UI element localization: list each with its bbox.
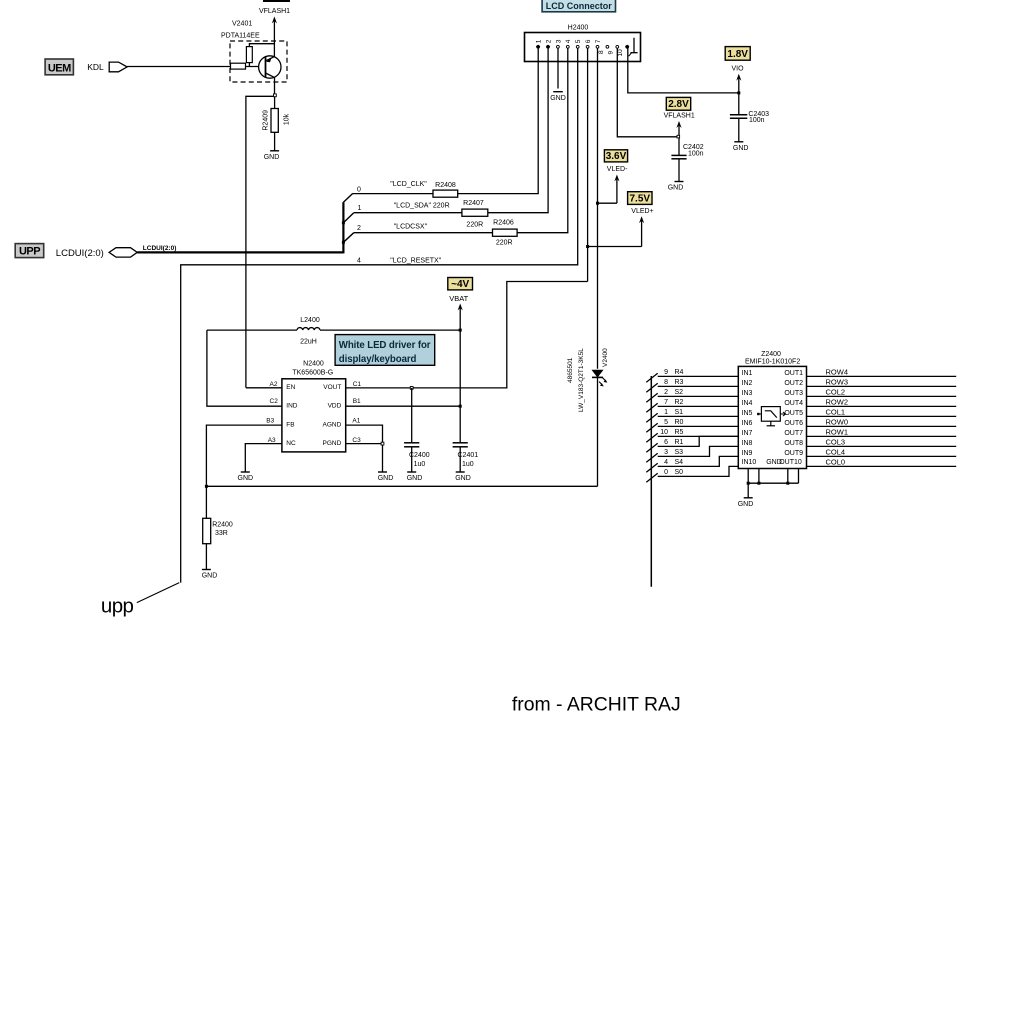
wire R1 jog to IN7 <box>658 436 739 446</box>
svg-text:VDD: VDD <box>328 402 342 409</box>
block reference UPP <box>15 244 44 258</box>
svg-text:OUT6: OUT6 <box>784 420 803 427</box>
voltage label 7.5V <box>628 192 652 205</box>
svg-text:3: 3 <box>555 39 562 43</box>
signal pointer KDL <box>109 62 127 72</box>
svg-text:FB: FB <box>286 421 294 428</box>
wire resistor top to emitter rail <box>249 44 274 47</box>
capacitor C2403 <box>730 114 747 116</box>
svg-text:4: 4 <box>357 258 361 265</box>
node VOUT-C2400 <box>410 387 413 390</box>
svg-text:B1: B1 <box>353 398 361 405</box>
svg-text:10: 10 <box>660 429 668 436</box>
resistor R2409 <box>271 109 278 133</box>
svg-text:PDTA114EE: PDTA114EE <box>221 33 260 40</box>
node VDD-VBAT <box>459 405 462 408</box>
ground (C2403) <box>734 141 743 143</box>
svg-text:White LED driver for: White LED driver for <box>339 340 431 351</box>
wire FB to rail <box>206 425 282 486</box>
svg-text:LW_V183-Q2T1-3K5L: LW_V183-Q2T1-3K5L <box>578 348 585 412</box>
wire node to EN vertical <box>246 96 274 388</box>
svg-text:R2400: R2400 <box>212 522 233 529</box>
svg-text:10k: 10k <box>283 113 290 125</box>
svg-text:NC: NC <box>286 440 296 447</box>
svg-text:R4: R4 <box>675 369 684 376</box>
svg-text:C1: C1 <box>353 381 362 388</box>
svg-text:OUT4: OUT4 <box>784 400 803 407</box>
svg-text:ROW1: ROW1 <box>826 428 849 437</box>
ground (C2402) <box>675 181 684 183</box>
title label LCD Connector <box>542 0 615 12</box>
svg-text:5: 5 <box>664 419 668 426</box>
svg-text:VFLASH1: VFLASH1 <box>664 112 695 119</box>
svg-text:9: 9 <box>607 51 614 55</box>
svg-text:OUT8: OUT8 <box>784 440 803 447</box>
wire LED to rail <box>597 378 599 486</box>
svg-text:OUT10: OUT10 <box>779 459 802 466</box>
voltage label ~4V <box>448 278 473 290</box>
svg-text:IN7: IN7 <box>742 430 753 437</box>
svg-text:IN2: IN2 <box>742 380 753 387</box>
svg-text:ROW3: ROW3 <box>826 378 849 387</box>
wire LCD_RESETX from upp to pin 5 <box>181 48 578 583</box>
wire KDL to V2401 <box>127 66 230 68</box>
built-in resistor (base-emitter) of V2401 <box>246 47 252 63</box>
wire bus to R2408 <box>353 193 433 195</box>
off-page reference upp <box>137 583 180 603</box>
svg-text:220R: 220R <box>466 221 483 228</box>
svg-text:R2407: R2407 <box>463 200 484 207</box>
svg-text:V2401: V2401 <box>232 21 252 28</box>
ground (Z2400) <box>744 497 753 499</box>
svg-text:ROW2: ROW2 <box>826 398 849 407</box>
svg-text:A2: A2 <box>270 381 278 388</box>
svg-text:"LCD_CLK": "LCD_CLK" <box>390 181 427 188</box>
wire ground rail (FB/R2400/LED return) <box>205 485 597 487</box>
svg-text:2: 2 <box>357 225 361 232</box>
svg-text:220R: 220R <box>496 240 513 247</box>
connector H2400 body <box>525 33 641 62</box>
svg-text:5: 5 <box>575 39 582 43</box>
svg-text:ROW0: ROW0 <box>826 418 849 427</box>
svg-text:8: 8 <box>598 50 605 54</box>
resistor R2400 <box>203 518 211 543</box>
svg-text:S0: S0 <box>675 469 684 476</box>
voltage label 1.8V <box>725 47 750 61</box>
svg-text:GND: GND <box>407 475 423 482</box>
wire bus to R2406 <box>354 232 493 234</box>
capacitor C2400 wire <box>411 388 413 443</box>
ground (C2400) <box>407 471 416 473</box>
svg-text:IND: IND <box>286 402 298 409</box>
svg-text:C2: C2 <box>270 398 279 405</box>
bus tap 0 <box>343 193 352 202</box>
resistor R2406 <box>493 229 518 236</box>
svg-text:R2: R2 <box>675 399 684 406</box>
wire pin 3 to ground <box>557 48 559 88</box>
svg-text:LCD Connector: LCD Connector <box>546 1 612 11</box>
ground (R2400) <box>202 569 211 571</box>
svg-text:COL4: COL4 <box>826 448 846 457</box>
wire NC to ground <box>245 444 282 472</box>
bus tap 0 S0 <box>646 473 657 482</box>
svg-text:V2400: V2400 <box>602 348 609 367</box>
wire VLED+ to pin6 line <box>588 246 642 248</box>
keypad bus riser <box>650 376 652 587</box>
wire R2407 to pin 2 <box>488 48 548 213</box>
svg-text:VLED-: VLED- <box>607 166 628 173</box>
svg-text:H2400: H2400 <box>568 24 589 31</box>
svg-text:GND: GND <box>238 475 254 482</box>
svg-text:COL1: COL1 <box>826 408 846 417</box>
svg-text:N2400: N2400 <box>303 361 324 368</box>
wire AGND down <box>346 425 383 472</box>
svg-text:R3: R3 <box>675 379 684 386</box>
connector pins 1-10 <box>537 45 540 48</box>
svg-text:6: 6 <box>664 439 668 446</box>
filter element inside Z2400 <box>761 407 780 422</box>
svg-text:KDL: KDL <box>87 62 104 72</box>
wire EN stub <box>246 387 282 389</box>
svg-text:4865501: 4865501 <box>567 357 574 383</box>
svg-text:S1: S1 <box>675 409 684 416</box>
ground (R2409) <box>270 150 279 152</box>
svg-text:LCDUI(2:0): LCDUI(2:0) <box>56 248 104 259</box>
node VLED- <box>596 202 599 205</box>
transistor V2401 body <box>259 56 281 78</box>
svg-text:9: 9 <box>664 369 668 376</box>
voltage label 3.6V <box>604 150 627 162</box>
svg-text:GND: GND <box>378 475 394 482</box>
svg-text:R2406: R2406 <box>493 220 514 227</box>
svg-text:OUT2: OUT2 <box>784 380 803 387</box>
bus riser <box>342 202 344 253</box>
bus tap 6 R1 <box>646 443 657 452</box>
svg-text:7: 7 <box>595 39 602 43</box>
svg-text:3.6V: 3.6V <box>606 151 627 162</box>
svg-text:VBAT: VBAT <box>449 294 468 303</box>
node (transistor output) <box>274 94 277 97</box>
transistor V2401 PDTA114EE (dashed outline) <box>230 41 287 82</box>
node Z2400 gnd a <box>747 482 750 485</box>
wire node to R2409 <box>274 97 276 109</box>
wire C2402 to ground <box>678 159 680 182</box>
node VBAT-inductor <box>459 329 462 332</box>
resistor R2407 <box>462 209 488 216</box>
svg-text:TK65600B-G: TK65600B-G <box>292 370 333 377</box>
bus tap 1 <box>342 221 345 224</box>
svg-text:LCDUI(2:0): LCDUI(2:0) <box>143 245 177 252</box>
svg-text:R2408: R2408 <box>435 182 456 189</box>
svg-text:ROW4: ROW4 <box>826 368 849 377</box>
svg-text:OUT7: OUT7 <box>784 430 803 437</box>
svg-text:R5: R5 <box>675 429 684 436</box>
IC N2400 body <box>282 379 346 452</box>
svg-text:IN3: IN3 <box>742 390 753 397</box>
svg-text:UPP: UPP <box>19 246 40 258</box>
svg-text:8: 8 <box>664 379 668 386</box>
svg-text:AGND: AGND <box>323 421 342 428</box>
IC Z2400 body <box>738 366 806 468</box>
wire R2408 to pin 1 <box>458 48 539 194</box>
svg-text:33R: 33R <box>215 530 228 537</box>
wire R2409 to ground <box>274 132 276 151</box>
bus tap 2 S2 <box>646 393 657 402</box>
ground (PGND) <box>378 471 387 473</box>
wire rail to R2400 <box>205 486 207 518</box>
svg-text:1.8V: 1.8V <box>727 49 748 60</box>
svg-text:S3: S3 <box>675 449 684 456</box>
svg-text:R0: R0 <box>675 419 684 426</box>
svg-text:VOUT: VOUT <box>323 384 341 391</box>
svg-text:4: 4 <box>565 39 572 43</box>
svg-text:2: 2 <box>664 389 668 396</box>
svg-text:COL3: COL3 <box>826 438 846 447</box>
svg-text:VLED+: VLED+ <box>631 208 653 215</box>
svg-text:display/keyboard: display/keyboard <box>339 354 417 365</box>
wire bus to R2407 <box>354 212 462 214</box>
svg-text:IN5: IN5 <box>742 410 753 417</box>
wire inductor to VBAT node <box>320 329 460 331</box>
svg-text:COL2: COL2 <box>826 388 846 397</box>
capacitor C2403 wire <box>738 93 740 115</box>
svg-text:7: 7 <box>664 399 668 406</box>
LED V2400 <box>592 370 602 377</box>
svg-text:OUT3: OUT3 <box>784 390 803 397</box>
svg-text:IN6: IN6 <box>742 420 753 427</box>
bus tap 3 S3 <box>646 453 657 462</box>
inductor L2400 <box>297 328 320 331</box>
svg-text:GND: GND <box>550 95 566 102</box>
svg-text:0: 0 <box>357 186 361 193</box>
svg-text:100n: 100n <box>688 150 704 157</box>
svg-text:Z2400: Z2400 <box>761 351 781 358</box>
node Z2400 gnd c <box>786 482 789 485</box>
svg-text:"LCDCSX": "LCDCSX" <box>394 224 428 231</box>
wire VOUT from N2400 to pin 6 <box>346 282 588 388</box>
bus tap 7 R2 <box>646 403 657 412</box>
svg-text:COL0: COL0 <box>826 458 846 467</box>
svg-text:VFLASH1: VFLASH1 <box>259 8 290 15</box>
wire C2403 to ground <box>738 118 740 141</box>
bus tap 10 R5 <box>646 433 657 442</box>
svg-text:~4V: ~4V <box>451 279 469 290</box>
node Z2400 gnd b <box>757 482 760 485</box>
ground (connector pin 3) <box>553 91 563 93</box>
wire R2406 to pin 4 <box>517 48 568 233</box>
svg-text:100n: 100n <box>749 117 765 124</box>
svg-text:VIO: VIO <box>731 65 744 72</box>
wire VBAT down to C2401 <box>459 330 461 443</box>
svg-text:R2409: R2409 <box>262 110 269 131</box>
wire pin 7 down to LED <box>597 48 599 369</box>
wire Z2400 ground stubs <box>747 469 749 484</box>
svg-text:GND: GND <box>202 573 218 580</box>
svg-text:1: 1 <box>358 205 362 212</box>
built-in series base resistor of V2401 <box>231 63 246 69</box>
wire collector down to node <box>274 77 276 94</box>
wire S3 jog to IN8 <box>658 446 739 456</box>
svg-text:1: 1 <box>536 39 543 43</box>
bus tap 9 R4 <box>646 373 657 382</box>
wire base resistor to transistor base <box>246 66 266 68</box>
connector internal ground symbol <box>633 38 635 53</box>
wire pin 9 to VFLASH1 node <box>617 48 677 137</box>
wire PGND join <box>346 443 383 445</box>
svg-text:OUT9: OUT9 <box>784 450 803 457</box>
bus tap 4 S4 <box>646 463 657 472</box>
svg-text:R1: R1 <box>675 439 684 446</box>
wire pin 10 to VIO node <box>628 48 739 93</box>
wire VDD to VBAT <box>346 405 461 407</box>
bus pointer LCDUI(2:0) <box>109 248 137 257</box>
svg-text:2.8V: 2.8V <box>668 99 689 110</box>
svg-text:1u0: 1u0 <box>462 461 474 468</box>
wire S0 jog to IN10 <box>658 466 739 476</box>
net VFLASH1 (top, cut-off bar) <box>263 0 290 2</box>
svg-text:"LCD_SDA" 220R: "LCD_SDA" 220R <box>394 202 450 209</box>
bus tap 1 S1 <box>646 413 657 422</box>
svg-text:7.5V: 7.5V <box>630 193 651 204</box>
svg-text:L2400: L2400 <box>300 317 320 324</box>
node rail-R2400 <box>205 485 208 488</box>
node PGND-AGND <box>381 442 384 445</box>
ground (NC) <box>241 471 250 473</box>
svg-text:GND: GND <box>455 475 471 482</box>
svg-text:2: 2 <box>545 39 552 43</box>
svg-text:3: 3 <box>664 449 668 456</box>
svg-text:S2: S2 <box>675 389 684 396</box>
wire R2400 to ground <box>205 544 207 570</box>
svg-text:"LCD_RESETX": "LCD_RESETX" <box>390 257 441 264</box>
svg-text:B3: B3 <box>266 418 274 425</box>
svg-text:GND: GND <box>668 185 684 192</box>
svg-text:1u0: 1u0 <box>414 461 426 468</box>
wire resistor bottom to base <box>248 63 250 67</box>
svg-text:IN1: IN1 <box>742 370 753 377</box>
net arrow VFLASH1 <box>273 20 275 57</box>
svg-text:22uH: 22uH <box>300 339 317 346</box>
svg-text:S4: S4 <box>675 459 684 466</box>
svg-text:EMIF10-1K010F2: EMIF10-1K010F2 <box>745 358 800 365</box>
svg-text:OUT1: OUT1 <box>784 370 803 377</box>
wire VBAT rail through inductor <box>207 329 297 331</box>
wire S4 jog to IN9 <box>658 456 739 466</box>
svg-text:1: 1 <box>664 409 668 416</box>
svg-text:IN4: IN4 <box>742 400 753 407</box>
svg-text:GND: GND <box>264 154 280 161</box>
svg-text:0: 0 <box>664 469 668 476</box>
annotation White LED driver <box>335 335 435 366</box>
svg-text:6: 6 <box>585 39 592 43</box>
svg-text:IN10: IN10 <box>742 459 757 466</box>
svg-text:A1: A1 <box>352 418 360 425</box>
node VLED+ <box>586 245 589 248</box>
svg-text:from - ARCHIT RAJ: from - ARCHIT RAJ <box>512 694 681 716</box>
bus tap 8 R3 <box>646 383 657 392</box>
svg-text:EN: EN <box>286 384 295 391</box>
wire VLED- to pin7 line <box>598 202 617 204</box>
svg-text:IN9: IN9 <box>742 450 753 457</box>
svg-text:PGND: PGND <box>323 440 342 447</box>
voltage label 2.8V <box>666 97 690 110</box>
capacitor C2402 <box>671 154 686 156</box>
svg-text:GND: GND <box>733 145 749 152</box>
svg-text:IN8: IN8 <box>742 440 753 447</box>
capacitor C2400 <box>404 442 419 444</box>
svg-text:UEM: UEM <box>48 62 71 74</box>
capacitor C2402 wire <box>678 138 680 156</box>
svg-text:GND: GND <box>738 501 754 508</box>
wire pin 6 down (VOUT net riser) <box>587 48 589 281</box>
block reference UEM <box>45 59 73 75</box>
bus wire LCDUI <box>137 251 343 253</box>
wire C2401 to ground <box>459 447 461 472</box>
resistor R2408 <box>433 190 458 197</box>
svg-text:upp: upp <box>101 595 134 618</box>
node VFLASH1 <box>677 135 680 138</box>
ground (C2401) <box>456 471 465 473</box>
bus tap 2 <box>342 241 345 244</box>
wire to ground (Z2400) <box>747 483 749 498</box>
capacitor C2401 <box>453 442 468 444</box>
svg-text:4: 4 <box>664 459 668 466</box>
svg-text:OUT5: OUT5 <box>784 410 803 417</box>
node VIO <box>737 91 740 94</box>
LED emission arrows <box>603 378 606 381</box>
wire inductor-left down to IND pin <box>207 330 282 406</box>
wire C2400 to ground <box>411 447 413 472</box>
bus tap 5 R0 <box>646 423 657 432</box>
